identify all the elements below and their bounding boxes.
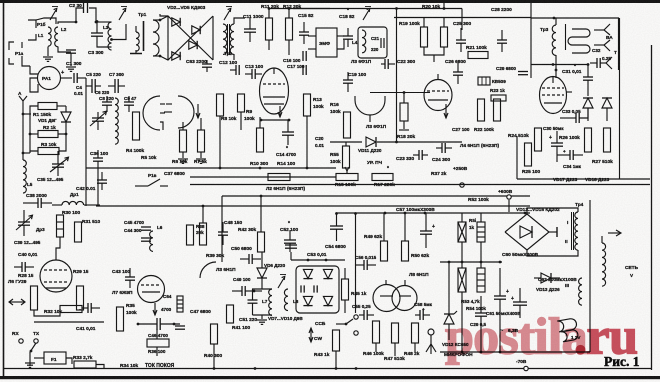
capacitor C7: [114, 79, 116, 93]
capacitor C45: [141, 226, 151, 228]
capacitor C34: [569, 150, 571, 160]
capacitor C4: [73, 73, 75, 83]
resistor R27: [604, 128, 611, 152]
resistor R28: [31, 286, 38, 310]
resistor R2: [38, 131, 58, 138]
inductor Dr3 box: [57, 215, 64, 237]
fuse F1 box: [44, 352, 66, 364]
resistor R35: [117, 307, 124, 331]
capacitor C50: [248, 254, 250, 264]
switch P1b contact: [28, 20, 36, 28]
bridge output lead: [549, 231, 557, 233]
wire left input: [30, 66, 38, 74]
cathode arrow tube L2: [279, 106, 281, 117]
capacitor C62 electrolytic: [513, 301, 527, 303]
wire R49 top: [383, 213, 385, 241]
diode VD6: [257, 268, 267, 278]
resistor R36 box: [147, 339, 169, 347]
resistor R38: [187, 225, 194, 245]
capacitor C31: [583, 76, 593, 78]
wire R8 down: [219, 116, 221, 168]
striped box upper: [477, 222, 485, 242]
TX contact: [34, 339, 38, 343]
wire IF line y142: [330, 141, 362, 143]
EMF filter box: [316, 28, 337, 57]
wire y260 to ring box: [291, 259, 345, 261]
wire L2 top node: [58, 22, 76, 24]
wire antenna taps: [23, 113, 31, 115]
capacitor C13: [251, 69, 253, 79]
resistor column x481: [478, 99, 485, 121]
wire boxes bottom y268: [461, 242, 463, 268]
selector arrow 1A fourth: [363, 10, 369, 20]
wire C4 down: [85, 78, 87, 96]
tube L7 6Zh9P: [138, 276, 165, 303]
coil Tp1 secondary: [153, 20, 159, 56]
capacitor C56: [363, 260, 365, 270]
capacitor C12: [235, 65, 237, 75]
variable capacitor C39: [18, 221, 30, 223]
wire R6 R7 bottom ground: [182, 152, 184, 158]
capacitor C25: [456, 39, 466, 41]
wire node to L3: [96, 21, 112, 23]
resistor R42: [258, 232, 265, 252]
wire R39 top: [202, 206, 204, 223]
coil Dr1 horizontal: [62, 201, 84, 205]
bridge inner diode: [520, 226, 532, 238]
piezo KV509 box: [478, 77, 490, 85]
tube L4 pentode circle: [424, 80, 452, 111]
capacitor C46: [156, 318, 158, 330]
output jack: [428, 329, 434, 335]
resistor R3: [38, 148, 59, 155]
striped trimmer C64: [177, 296, 183, 312]
capacitor C15: [299, 31, 309, 33]
wire vertical x355: [355, 214, 357, 314]
capacitor C30 electrolytic: [551, 142, 563, 144]
diode VD18: [602, 98, 612, 108]
wire right frame links: [601, 236, 603, 243]
transformer Tp3 core: [565, 24, 567, 50]
capacitor C2 loop: [76, 8, 83, 22]
resistor R26: [585, 128, 592, 152]
transformer Tp4 winding III: [579, 278, 582, 305]
switch P1v: [135, 185, 148, 187]
resistor R21: [468, 52, 488, 59]
wire bus drop x396: [396, 9, 398, 143]
diode ring box VD7-VD10: [296, 266, 339, 313]
tube L8 bulb right: [392, 286, 417, 311]
wire plate L6 up: [56, 237, 60, 260]
diode VD4: [189, 41, 197, 49]
resistor R8: [217, 94, 224, 116]
resistor R37: [268, 174, 290, 181]
tube L1 lower electrodes: [264, 103, 284, 105]
switch lever: [30, 343, 36, 366]
coil L3b middle winding: [136, 32, 139, 51]
wire R36 to bottom: [156, 329, 158, 339]
capacitor C61 electrolytic: [494, 295, 506, 297]
wire R11 R12 bottoms: [268, 40, 270, 50]
border left: [3, 3, 5, 377]
coil L4: [362, 30, 366, 53]
resistor R10: [257, 128, 264, 152]
resistor R16: [344, 112, 351, 138]
wire bridge to winding: [527, 208, 578, 214]
border bottom outer bar: [0, 376, 660, 379]
mains primary coil: [602, 243, 606, 286]
transformer Tp1 core: [143, 21, 145, 51]
resistor R40: [211, 324, 218, 344]
wire R9 down: [240, 112, 242, 130]
cathode arrow L7: [154, 303, 156, 315]
wire antenna down: [22, 101, 24, 160]
resistor R11: [266, 18, 273, 40]
wire boxes to rail: [461, 292, 463, 352]
mains arrows: [608, 232, 620, 234]
border bottom inner: [4, 368, 652, 370]
tube half L2a: [143, 96, 160, 130]
tank top wire: [252, 288, 272, 290]
wire R45: [344, 268, 346, 279]
diode VD8: [323, 269, 332, 278]
wire rail y206: [96, 205, 530, 207]
wire R50 top: [404, 213, 406, 241]
resistor R13: [304, 94, 311, 116]
mode arrow: [310, 328, 312, 342]
wire long rail y184.5: [190, 184, 650, 186]
resistor R18: [400, 103, 408, 121]
tube half L3 lower: [355, 100, 385, 115]
capacitor C57 electrolytic: [420, 230, 432, 232]
capacitor C49: [241, 286, 243, 296]
wire C49 node: [254, 290, 262, 292]
wire rail y213 to boxes: [461, 213, 463, 222]
wire y120 under tube: [261, 119, 289, 121]
diode VD17: [583, 98, 593, 108]
capacitor C19: [343, 79, 353, 81]
capacitor C14: [282, 131, 294, 133]
transformer Tp2 core: [227, 24, 229, 55]
tube quarter L3b: [200, 262, 216, 278]
resistor R20: [441, 27, 448, 47]
wire after VD11: [377, 141, 462, 143]
diode VD2: [172, 18, 180, 26]
switch P1a: [9, 42, 14, 50]
tube L5 output pentode: [540, 77, 567, 114]
RX contact: [19, 339, 23, 343]
resistor R24: [535, 128, 542, 151]
transformer Tp2 right winding: [230, 24, 234, 54]
wire long vertical x531: [530, 3, 532, 78]
resistor R48: [412, 323, 419, 343]
wire Tp2 right top: [234, 18, 245, 24]
capacitor C3: [91, 32, 103, 34]
coil L8: [284, 289, 288, 311]
capacitor C63: [202, 63, 212, 65]
capacitor C29b: [518, 71, 528, 73]
capacitor C47: [175, 325, 185, 327]
capacitor C42: [97, 179, 107, 181]
wire horizontal y262: [440, 261, 502, 263]
resistor R50: [402, 241, 409, 261]
double arrow TRX: [10, 301, 24, 303]
diode VD3: [192, 26, 200, 34]
capacitor C11: [244, 28, 256, 30]
coil L1: [48, 27, 51, 46]
lamp box fuse upper: [458, 222, 466, 242]
svg-text:Рис. 1: Рис. 1: [604, 354, 640, 369]
capacitor C36: [93, 157, 103, 159]
capacitor C53: [285, 244, 297, 246]
wire R19 R20 bottom join: [424, 47, 444, 55]
resistor R25: [525, 143, 532, 166]
wire y357 row: [96, 365, 104, 369]
tube L8 grids: [380, 295, 393, 297]
capacitor C23: [418, 150, 420, 160]
diode VD7: [303, 269, 312, 278]
transformer Tp3 primary: [552, 25, 556, 55]
resistor R1: [38, 103, 57, 110]
wire R6 top: [182, 122, 184, 130]
diode VD10: [323, 296, 332, 305]
capacitor C22: [384, 59, 386, 69]
wire long rail y168: [86, 167, 336, 169]
potentiometer R15: [336, 174, 358, 181]
capacitor C41: [87, 303, 89, 313]
ring middle caps: [300, 285, 302, 292]
wire P1b to L1: [36, 18, 56, 24]
wire Tp3 down to tube: [555, 69, 558, 72]
selector arrow tank: [278, 278, 284, 288]
resistor R45: [342, 279, 349, 300]
resistor R23: [491, 95, 506, 101]
resistor R19: [421, 27, 428, 47]
resistor R55: [343, 146, 350, 168]
resistor R29: [77, 286, 84, 310]
tube L8 bulb left: [373, 285, 400, 312]
resistor R12: [286, 18, 293, 40]
coil L2: [55, 27, 58, 47]
capacitor C32 plates: [596, 58, 598, 68]
wire F1 leads: [34, 357, 44, 359]
capacitor C29: [475, 312, 487, 314]
selector arrow 1A left: [50, 10, 56, 20]
selector arrow 1A right: [224, 10, 230, 20]
switch contact a: [354, 315, 358, 319]
capacitor C8: [102, 101, 112, 103]
speaker BA terminals: [594, 29, 604, 31]
wire y92.5 top: [370, 92, 430, 94]
wire R19 R20 top: [423, 18, 425, 28]
wire rail y177: [190, 176, 336, 178]
diode VD11: [366, 137, 376, 147]
capacitor C58: [419, 310, 421, 320]
phone jack T: [600, 62, 606, 64]
wire C1 to ground: [70, 53, 72, 66]
resistor R9: [238, 94, 245, 112]
wire top right rail y196 ext: [462, 195, 530, 197]
coil L7 tank: [269, 289, 272, 315]
wire sep vertical x590: [589, 200, 591, 330]
rectifier bridge diamond: [505, 214, 549, 250]
switch contact b: [354, 331, 358, 335]
coil L5 antenna: [23, 160, 26, 193]
speaker box top: [531, 18, 619, 70]
wire R10 top: [259, 117, 261, 128]
EMF leads: [308, 35, 316, 37]
capacitor C5: [91, 79, 93, 93]
resistor R47: [392, 323, 399, 343]
coil Dr antenna choke: [115, 98, 118, 144]
capacitor C28: [497, 39, 507, 41]
resistor R46: [373, 321, 380, 343]
wire R11 R12 tops: [269, 8, 330, 10]
heater winding loops: [557, 318, 577, 332]
capacitor C18: [343, 35, 353, 37]
capacitor C9: [124, 101, 134, 103]
ring modulator frame: [160, 16, 213, 60]
capacitor C2 plates: [83, 3, 85, 13]
resistor R41: [227, 305, 234, 323]
wire sub box left: [516, 136, 518, 179]
resistor R33: [74, 361, 96, 368]
resistor R49: [381, 241, 388, 261]
tube L1 triode oval: [260, 68, 289, 114]
resistor column x497: [494, 99, 501, 121]
capacitor C1: [66, 49, 76, 51]
border right: [651, 45, 653, 370]
wire PA1 left loop: [30, 78, 38, 92]
wire PA1 right: [61, 77, 73, 79]
zener VD12: [444, 314, 454, 324]
resistor R17: [372, 174, 393, 181]
transformer Tp4 core: [571, 212, 573, 250]
diode VD9: [303, 296, 312, 305]
variable capacitor C35: [52, 163, 64, 165]
cathode arrow L4: [445, 104, 447, 118]
resistor bias h-box: [60, 306, 82, 313]
wire left rail down: [29, 151, 31, 153]
switch lever AF: [346, 319, 353, 324]
tank bottom wire: [253, 314, 273, 316]
wire heater drop: [589, 330, 591, 352]
tube L6 GU29 power: [40, 260, 72, 292]
wire L2 bottom to C1: [58, 47, 71, 53]
wire vertical x462: [461, 9, 463, 31]
wire top bus to EMF: [293, 8, 462, 10]
wire bottom right rail y352: [440, 351, 590, 353]
variable capacitor C9 trim: [92, 117, 104, 119]
wire vertical x86 long: [85, 96, 87, 206]
capacitor C43: [125, 276, 135, 278]
resistor R4: [133, 112, 140, 140]
capacitor C26: [453, 71, 463, 73]
wire R40 to bottom: [213, 344, 215, 369]
capacitor C33: [575, 113, 577, 123]
wire ring top to C2 area: [160, 14, 168, 16]
striped box lower: [477, 268, 485, 292]
transformer Tp3 secondary loop: [568, 29, 590, 53]
ground under L1: [43, 56, 53, 58]
capacitor C48: [218, 231, 228, 233]
capacitor C55: [363, 310, 365, 320]
wire right column x619: [619, 18, 621, 179]
wire drop x222: [221, 196, 223, 262]
capacitor C38: [37, 198, 39, 208]
wire y17.5 to speaker box: [462, 17, 531, 19]
tank circuit L4 box: [358, 27, 387, 58]
wire y64 tube to C31: [531, 64, 588, 66]
junction dot rail: [335, 212, 338, 215]
resistor R39: [200, 223, 207, 245]
wire L1 bottom to ground: [47, 47, 49, 57]
capacitor C52: [284, 239, 296, 241]
wire bias to R28 R29: [34, 309, 60, 316]
capacitor C40: [21, 262, 23, 272]
wire rail y213 filtered B+: [336, 212, 530, 214]
transformer Tp4 winding II: [575, 231, 578, 250]
capacitor C24: [441, 143, 443, 153]
capacitor C51: [248, 299, 258, 301]
capacitor C21 plates: [380, 38, 382, 48]
resistor R31: [75, 222, 82, 242]
wire R13 down: [306, 116, 308, 168]
capacitor C44: [141, 237, 151, 239]
meter PA1 circle: [38, 67, 61, 90]
wire R43 bottom: [335, 351, 337, 369]
border top bar: [0, 0, 660, 3]
coil L3: [108, 22, 112, 50]
wire R42 top: [260, 196, 262, 232]
wire rail y196: [222, 195, 462, 197]
resistor R6: [180, 130, 187, 152]
transformer Tp2 left winding: [223, 24, 227, 54]
diode VD13: [541, 273, 551, 283]
coil L6: [150, 231, 153, 251]
resistor R43: [333, 330, 340, 351]
selector arrow 1A mid: [119, 10, 125, 20]
wire R46-48 to bus: [375, 343, 377, 352]
capacitor C54: [330, 225, 343, 227]
wire switch to frame: [25, 362, 35, 364]
tube half L2b: [178, 96, 194, 128]
lamp box lower: [458, 268, 466, 292]
L3 tap wire: [112, 24, 127, 40]
diode VD1: [61, 112, 71, 122]
diode VD5: [172, 52, 180, 60]
svg-text:postila: postila: [445, 309, 588, 366]
wire R7 top: [200, 118, 202, 130]
cathode arrow L2b: [197, 104, 199, 118]
wire bias chain left: [30, 106, 38, 151]
resistor R7: [198, 130, 205, 152]
transformer Tp4 winding I: [575, 212, 578, 231]
capacitor C16 C17: [302, 51, 304, 61]
wire sub box bottom: [517, 178, 650, 180]
